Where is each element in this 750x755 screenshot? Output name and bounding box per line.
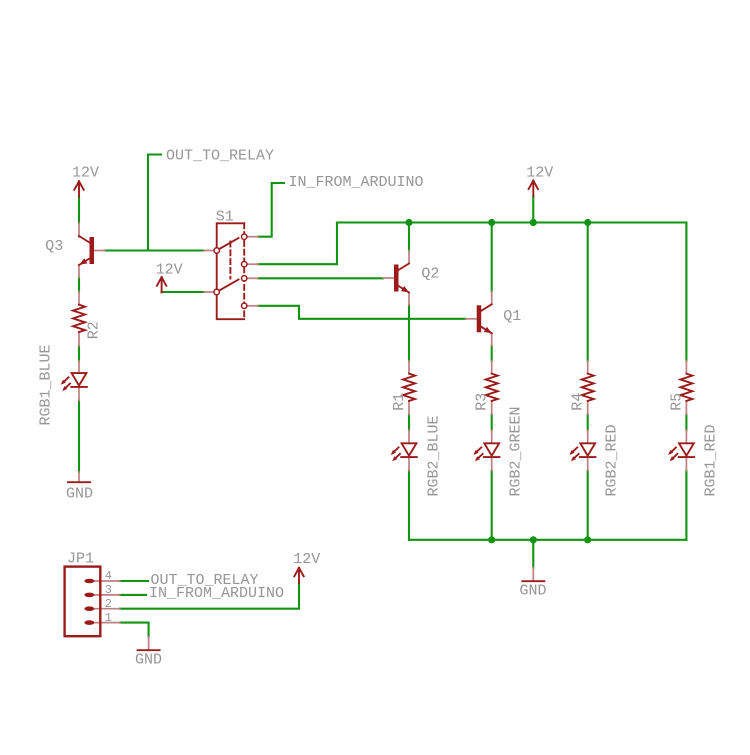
- svg-text:4: 4: [105, 569, 112, 583]
- svg-text:Q1: Q1: [503, 308, 521, 325]
- svg-text:R3: R3: [474, 393, 491, 411]
- svg-text:12V: 12V: [72, 165, 99, 182]
- svg-text:GND: GND: [135, 652, 162, 669]
- svg-text:RGB1_RED: RGB1_RED: [702, 424, 719, 496]
- svg-text:1: 1: [105, 611, 112, 625]
- svg-text:12V: 12V: [293, 551, 320, 568]
- svg-text:R1: R1: [391, 393, 408, 411]
- svg-text:RGB2_RED: RGB2_RED: [604, 424, 621, 496]
- svg-text:GND: GND: [520, 583, 547, 600]
- svg-text:12V: 12V: [156, 261, 183, 278]
- svg-text:RGB2_GREEN: RGB2_GREEN: [508, 406, 525, 496]
- svg-text:12V: 12V: [526, 165, 553, 182]
- svg-text:R4: R4: [570, 393, 587, 411]
- svg-text:R2: R2: [86, 321, 103, 339]
- svg-text:IN_FROM_ARDUINO: IN_FROM_ARDUINO: [149, 585, 284, 602]
- svg-text:GND: GND: [66, 486, 93, 503]
- svg-text:RGB1_BLUE: RGB1_BLUE: [38, 344, 55, 425]
- svg-text:R5: R5: [668, 393, 685, 411]
- svg-text:JP1: JP1: [67, 551, 94, 568]
- svg-text:Q2: Q2: [421, 265, 439, 282]
- svg-text:IN_FROM_ARDUINO: IN_FROM_ARDUINO: [289, 174, 424, 191]
- svg-text:3: 3: [105, 583, 112, 597]
- svg-text:2: 2: [105, 597, 112, 611]
- svg-text:OUT_TO_RELAY: OUT_TO_RELAY: [166, 147, 274, 164]
- svg-text:RGB2_BLUE: RGB2_BLUE: [426, 415, 443, 496]
- svg-text:Q3: Q3: [45, 238, 63, 255]
- svg-text:S1: S1: [216, 208, 234, 225]
